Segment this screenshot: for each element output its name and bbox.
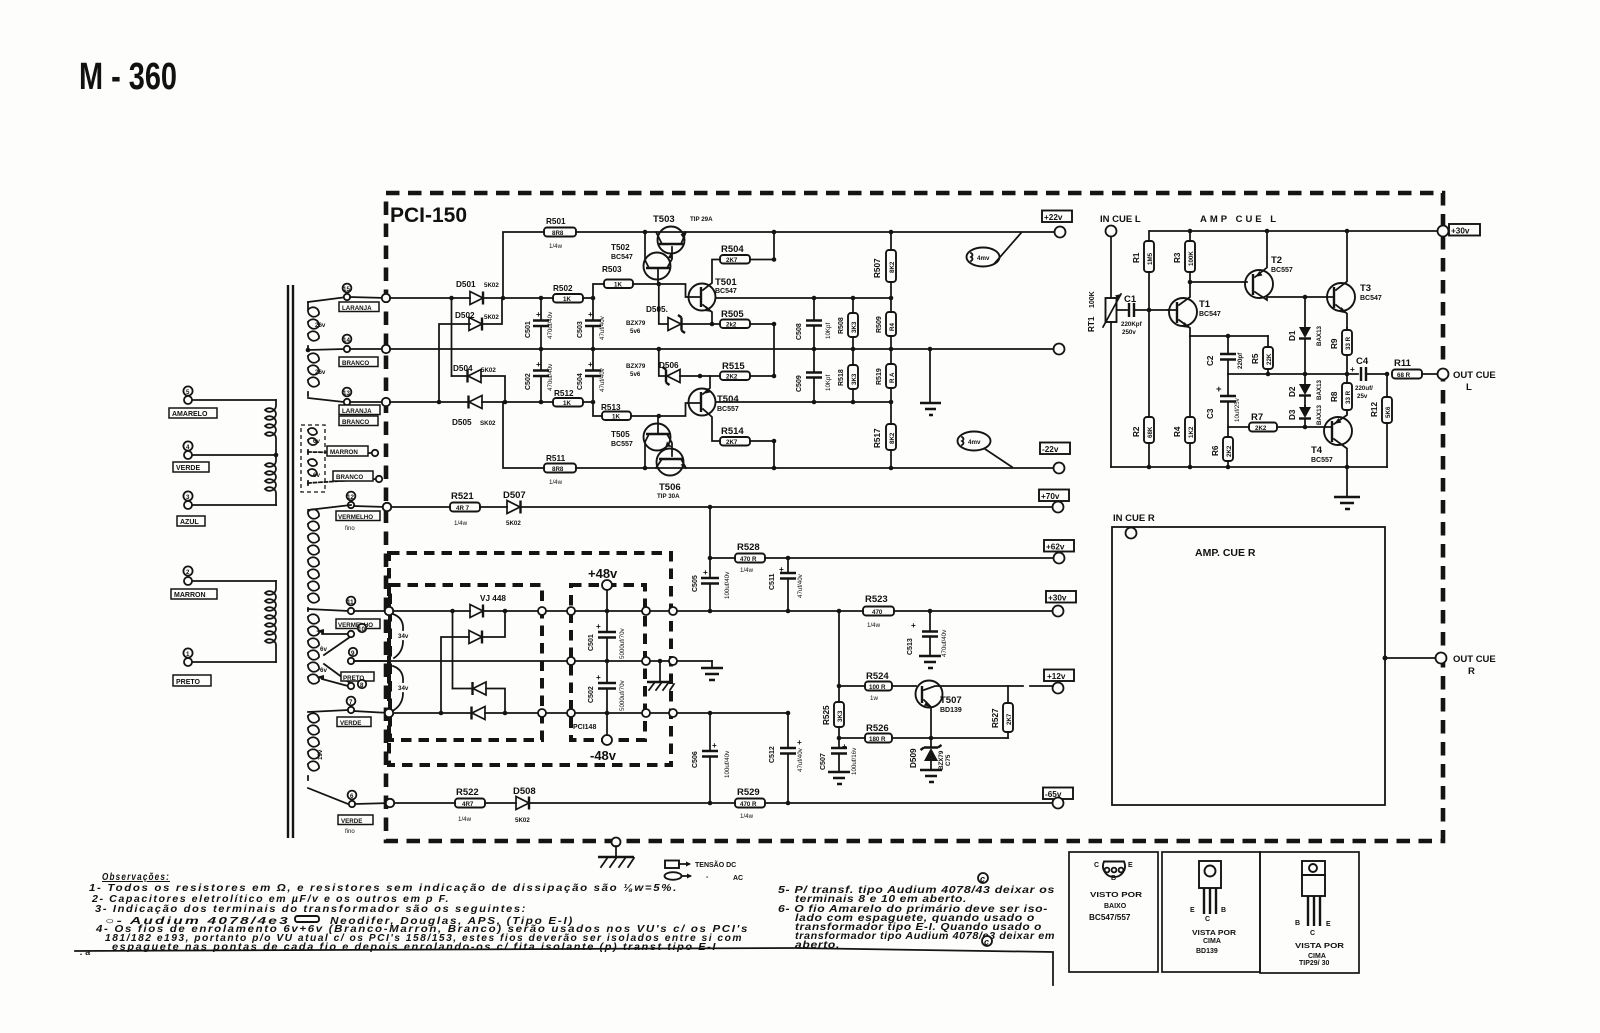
svg-text:10uf/25v: 10uf/25v: [1234, 397, 1241, 422]
svg-text:2K7: 2K7: [1006, 713, 1013, 725]
svg-text:espaguete nas pontas de cada f: espaguete nas pontas de cada fio e depoi…: [112, 942, 717, 953]
svg-text:R511: R511: [546, 454, 566, 463]
svg-text:PCI-150: PCI-150: [390, 204, 467, 227]
svg-text:B: B: [1295, 920, 1300, 927]
svg-text:+: +: [1216, 384, 1222, 395]
svg-text:+62v: +62v: [1046, 543, 1065, 552]
svg-text:OUT CUE: OUT CUE: [1453, 654, 1496, 665]
resistor R525: [822, 611, 844, 738]
svg-text:R521: R521: [451, 491, 474, 502]
unused winding dashed box with MARRON/BRANCO taps: [301, 425, 382, 492]
svg-text:1/4w: 1/4w: [458, 816, 472, 823]
svg-text:C4: C4: [1356, 356, 1369, 367]
svg-text:1/4w: 1/4w: [867, 622, 881, 629]
34v brace lower: [393, 666, 409, 710]
svg-text:5v6: 5v6: [630, 371, 641, 378]
-raw rail (t7): [392, 709, 790, 717]
svg-text:10Kpf: 10Kpf: [825, 323, 832, 339]
svg-text:D1: D1: [1288, 330, 1297, 341]
svg-text:PCI148: PCI148: [573, 724, 596, 731]
resistor R508: [838, 298, 858, 349]
svg-text:4R 7: 4R 7: [456, 505, 470, 512]
svg-text:M - 360: M - 360: [79, 56, 177, 98]
svg-text:CIMA: CIMA: [1308, 953, 1326, 960]
svg-text:R512: R512: [554, 389, 574, 398]
resistor R8: [1330, 374, 1352, 413]
svg-text:R5: R5: [1251, 353, 1260, 364]
svg-text:D3: D3: [1288, 409, 1297, 420]
svg-text:R2: R2: [1132, 426, 1141, 437]
svg-text:47uf/40v: 47uf/40v: [797, 747, 804, 772]
zener D506 (BZX79 5v6): [626, 349, 700, 385]
svg-text:+: +: [911, 621, 916, 630]
svg-text:+: +: [703, 568, 708, 577]
svg-text:1K: 1K: [563, 400, 571, 407]
svg-text:R4: R4: [889, 323, 896, 331]
svg-text:25v: 25v: [1357, 393, 1368, 400]
capacitor C509: [796, 349, 832, 402]
OUT CUE R terminal: [1383, 653, 1496, 678]
svg-text:250v: 250v: [1122, 329, 1136, 336]
svg-text:+30v: +30v: [1048, 594, 1067, 603]
OUT CUE L terminal: [1438, 369, 1496, 394]
diode D2 BAX13: [1288, 374, 1311, 406]
terminal 3 AZUL: [177, 491, 205, 526]
notes underline: [75, 948, 1053, 985]
svg-text:R525: R525: [822, 705, 831, 725]
svg-text:+12v: +12v: [1047, 672, 1066, 681]
svg-text:R7: R7: [1251, 412, 1263, 423]
svg-text:19v: 19v: [317, 749, 324, 760]
svg-text:AMARELO: AMARELO: [172, 411, 208, 418]
svg-text:220uf/: 220uf/: [1355, 385, 1373, 392]
6v+6v winding with taps 10/9/8 PRETO: [308, 614, 389, 689]
svg-text:R513: R513: [601, 403, 621, 412]
34v brace upper: [393, 614, 409, 658]
capacitor C504: [577, 349, 606, 402]
svg-text:220pf: 220pf: [1237, 352, 1244, 369]
secondary winding big (t12-t11): [308, 505, 351, 611]
svg-text:C512: C512: [769, 746, 776, 763]
svg-text:D508: D508: [513, 786, 536, 797]
svg-text:C513: C513: [907, 638, 914, 655]
svg-text:470 R: 470 R: [740, 801, 757, 808]
terminal 15 LARANJA: [339, 284, 386, 312]
svg-text:BC547: BC547: [715, 288, 737, 295]
svg-text:+70v: +70v: [1041, 492, 1060, 501]
svg-text:IN CUE R: IN CUE R: [1113, 513, 1155, 524]
-65v output: [1043, 788, 1073, 809]
svg-text:BC547: BC547: [1360, 295, 1382, 302]
svg-text:R507: R507: [873, 258, 882, 278]
primary winding lower (terminals 2-1): [191, 581, 276, 662]
transistor T502: [611, 232, 673, 284]
pinout box TIP29/30: [1260, 852, 1359, 973]
svg-text:IN CUE L: IN CUE L: [1100, 214, 1141, 225]
svg-text:T505: T505: [611, 430, 630, 439]
amp bottom rail: [1111, 465, 1387, 470]
potentiometer RT1 100K: [1087, 291, 1121, 467]
svg-text:PRETO: PRETO: [176, 679, 201, 686]
svg-text:+22v: +22v: [1044, 213, 1063, 222]
svg-text:1K: 1K: [614, 282, 622, 289]
svg-text:10Kpf: 10Kpf: [825, 375, 832, 391]
svg-text:+48v: +48v: [588, 566, 618, 581]
svg-text:2K2: 2K2: [1226, 445, 1233, 457]
primary winding upper (terminals 5-4-3): [191, 400, 278, 505]
svg-text:470uf/40v: 470uf/40v: [941, 629, 948, 657]
resistor R527: [991, 686, 1013, 738]
svg-text:C509: C509: [796, 375, 803, 392]
svg-text:BZX79: BZX79: [626, 320, 646, 327]
resistor R501 in +22 rail: [503, 217, 1055, 298]
bridge VJ448: [441, 594, 506, 720]
svg-text:T503: T503: [653, 214, 675, 225]
resistor R504: [720, 232, 776, 264]
svg-text:R1: R1: [1132, 252, 1141, 263]
svg-text:OUT CUE: OUT CUE: [1453, 370, 1496, 381]
svg-text:R528: R528: [737, 542, 760, 553]
svg-text:L: L: [1466, 382, 1472, 393]
svg-text:+: +: [596, 622, 601, 631]
svg-text:1M5: 1M5: [1147, 252, 1154, 265]
svg-text:VERDE: VERDE: [176, 465, 200, 472]
svg-text:T1: T1: [1199, 299, 1211, 310]
svg-text:T506: T506: [659, 482, 681, 493]
+48v terminal: [588, 566, 618, 611]
ground (bottom border): [598, 838, 634, 868]
terminal 1 PRETO: [173, 648, 211, 686]
svg-text:VERDE: VERDE: [340, 720, 361, 727]
svg-text:c: c: [984, 937, 989, 947]
svg-text:1K: 1K: [612, 414, 620, 421]
border pass-through circles on PCI-150 left edge: [382, 294, 394, 807]
svg-text:C501: C501: [525, 321, 532, 338]
svg-text:T504: T504: [717, 394, 739, 405]
diode D1 BAX13: [1288, 295, 1323, 374]
svg-text:LARANJA: LARANJA: [342, 408, 372, 415]
svg-text:R11: R11: [1394, 358, 1412, 369]
pinout box BC547/557: [1069, 852, 1158, 972]
svg-text:1/4w: 1/4w: [740, 567, 754, 574]
svg-text:SK02: SK02: [480, 420, 496, 427]
svg-text:2K7: 2K7: [726, 439, 738, 446]
svg-text:R519: R519: [876, 368, 883, 385]
svg-text:+: +: [842, 742, 847, 751]
svg-text:C501: C501: [588, 634, 595, 651]
svg-text:C503: C503: [577, 321, 584, 338]
svg-text:VERDE: VERDE: [341, 818, 362, 825]
svg-text:180 R: 180 R: [869, 736, 886, 743]
svg-text:BD139: BD139: [1196, 948, 1218, 955]
svg-text:1/4w: 1/4w: [740, 813, 754, 820]
svg-text:R527: R527: [991, 708, 1000, 728]
svg-text:R A: R A: [889, 372, 896, 383]
resistor R2: [1132, 310, 1154, 467]
diode D507: [503, 490, 526, 527]
svg-text:BRANCO: BRANCO: [336, 474, 363, 481]
svg-text:13: 13: [343, 390, 350, 397]
svg-text:AZUL: AZUL: [180, 519, 199, 526]
+30v output (amp): [1438, 224, 1481, 237]
svg-text:26v: 26v: [315, 369, 326, 376]
terminal 2 MARRON: [171, 566, 217, 599]
svg-text:C: C: [1310, 930, 1315, 937]
resistor R12: [1370, 374, 1392, 467]
svg-text:D2: D2: [1288, 386, 1297, 397]
-65v rail with R522 D508 R529: [394, 801, 1053, 806]
svg-text:100 R: 100 R: [869, 684, 886, 691]
svg-text:34v: 34v: [398, 685, 409, 692]
svg-text:-22v: -22v: [1042, 445, 1059, 454]
svg-text:2k2: 2k2: [726, 322, 737, 329]
capacitor C503: [577, 298, 606, 349]
svg-text:R505: R505: [721, 309, 744, 320]
svg-text:E: E: [1326, 921, 1331, 928]
svg-text:R501: R501: [546, 217, 566, 226]
svg-text:VISTO POR: VISTO POR: [1090, 892, 1142, 899]
resistor R511 in -22 rail: [503, 402, 1055, 486]
bridge dashed box: [390, 585, 542, 740]
capacitor C2: [1206, 336, 1244, 374]
svg-text:R6: R6: [1211, 445, 1220, 456]
+12v output: [1008, 670, 1074, 694]
svg-text:100K: 100K: [1188, 251, 1195, 266]
svg-text:BAX13: BAX13: [1316, 379, 1323, 400]
resistor R505: [710, 309, 777, 376]
resistor R4: [1173, 336, 1195, 467]
resistor R523 (+30): [863, 594, 894, 629]
capacitor C507: [820, 738, 858, 784]
svg-text:C3: C3: [1206, 408, 1215, 419]
resistor R519: [876, 349, 896, 402]
diode D502: [439, 298, 502, 402]
capacitor C502 (5000uf/70v): [588, 661, 626, 713]
svg-text:6v: 6v: [320, 646, 327, 653]
svg-text:34v: 34v: [398, 633, 409, 640]
svg-text:1K2: 1K2: [1188, 426, 1195, 438]
svg-text:D504: D504: [453, 364, 473, 373]
svg-text:C: C: [1205, 916, 1210, 923]
capacitor C1: [1117, 294, 1168, 336]
svg-text:47uf/40v: 47uf/40v: [599, 367, 606, 392]
rail t13 -raw with diode D505: [390, 396, 595, 428]
svg-text:RT1: RT1: [1087, 316, 1096, 332]
svg-text:2K2: 2K2: [726, 374, 738, 381]
svg-text:5K02: 5K02: [484, 282, 499, 289]
svg-text:R9: R9: [1330, 338, 1339, 349]
svg-text:R529: R529: [737, 787, 760, 798]
resistor R502: [553, 284, 583, 303]
svg-text:BD139: BD139: [940, 707, 962, 714]
svg-text:2K2: 2K2: [1255, 425, 1267, 432]
svg-text:B: B: [1221, 907, 1226, 914]
svg-text:1: 1: [186, 651, 190, 658]
svg-text:1K: 1K: [563, 296, 571, 303]
resistor R3: [1173, 231, 1195, 284]
svg-text:R504: R504: [721, 244, 744, 255]
svg-text:+: +: [588, 310, 593, 319]
+70v rail with R521 and D507: [391, 505, 1053, 510]
svg-text:D505.: D505.: [646, 305, 668, 314]
transistor T1: [1168, 282, 1221, 336]
transistor T505: [611, 416, 672, 468]
resistor R522: [455, 787, 485, 823]
svg-text:R518: R518: [838, 369, 845, 386]
svg-text:8: 8: [360, 682, 364, 689]
svg-text:R502: R502: [553, 284, 573, 293]
svg-text:33 R: 33 R: [1345, 390, 1352, 404]
svg-text:BC557: BC557: [1311, 457, 1333, 464]
svg-text:AMP. CUE R: AMP. CUE R: [1195, 547, 1256, 559]
transformer core: [288, 285, 293, 838]
svg-text:D501: D501: [456, 280, 476, 289]
legend TENSAO DC: [665, 860, 736, 869]
transistor T504: [688, 376, 739, 441]
capacitor C512: [769, 713, 804, 803]
svg-text:AMP CUE L: AMP CUE L: [1200, 214, 1279, 225]
svg-text:D507: D507: [503, 490, 526, 501]
terminal 5 AMARELO: [169, 386, 217, 418]
svg-text:R526: R526: [866, 723, 889, 734]
svg-text:C1: C1: [1124, 294, 1137, 305]
capacitor C501: [525, 298, 554, 349]
svg-text:R524: R524: [866, 671, 889, 682]
svg-text:T2: T2: [1271, 255, 1282, 266]
svg-text:8R8: 8R8: [552, 230, 564, 237]
+30v rail (amp): [1150, 229, 1437, 234]
svg-text:C511: C511: [769, 574, 776, 590]
svg-text:C506: C506: [692, 751, 699, 768]
svg-text:BAX13: BAX13: [1316, 404, 1323, 425]
svg-text:+: +: [536, 310, 541, 319]
transistor T503: [653, 214, 713, 254]
svg-text:BAIXO: BAIXO: [1104, 903, 1127, 910]
svg-text:5K02: 5K02: [515, 817, 530, 824]
resistor R528 (+62 feed): [708, 507, 1053, 611]
svg-text:R4: R4: [1173, 426, 1182, 437]
+62v output: [1044, 540, 1074, 564]
svg-text:R: R: [1468, 666, 1475, 677]
svg-text:+: +: [779, 565, 784, 574]
svg-text:R12: R12: [1370, 402, 1379, 417]
svg-text:8R8: 8R8: [552, 466, 564, 473]
svg-text:15: 15: [343, 286, 350, 293]
capacitor C4: [1350, 356, 1387, 400]
svg-text:2K7: 2K7: [726, 257, 738, 264]
svg-text:CIMA: CIMA: [1203, 938, 1221, 945]
capacitor C505: [692, 568, 731, 599]
terminal 12 VERMELHO fino: [336, 492, 387, 532]
svg-text:Observações:: Observações:: [102, 872, 170, 883]
svg-text:BC547: BC547: [611, 254, 633, 261]
svg-text:47uf/40v: 47uf/40v: [797, 573, 804, 598]
terminal 7 VERDE: [337, 697, 389, 727]
svg-text:fino: fino: [345, 526, 355, 532]
+30 raw rail (t11): [392, 607, 1053, 615]
svg-text:T507: T507: [940, 695, 962, 706]
svg-text:VISTA POR: VISTA POR: [1192, 930, 1236, 937]
svg-text:R503: R503: [602, 265, 622, 274]
PCI-150 main dashed border: [386, 193, 1443, 841]
svg-text:D509: D509: [909, 748, 918, 768]
svg-text:100uf/40v: 100uf/40v: [724, 750, 731, 778]
svg-text:5K02: 5K02: [506, 520, 521, 527]
svg-text:R8: R8: [1330, 391, 1339, 402]
svg-text:3K3: 3K3: [851, 321, 858, 333]
diode D508: [513, 786, 536, 824]
svg-text:VERMELHO: VERMELHO: [338, 514, 373, 521]
observations notes (left): [80, 872, 749, 957]
resistor R526: [837, 723, 1008, 743]
4mv bubble (+22): [967, 233, 1022, 267]
svg-text:1/4w: 1/4w: [549, 479, 563, 486]
svg-text:R523: R523: [865, 594, 888, 605]
resistor R515: [698, 361, 777, 381]
svg-text:5K6: 5K6: [1385, 406, 1392, 418]
svg-text:C2: C2: [1206, 355, 1215, 366]
rail t15 +raw: [390, 296, 595, 301]
resistor R503: [593, 265, 688, 298]
svg-text:3- Indicação dos terminais do: 3- Indicação dos terminais do transforma…: [95, 904, 527, 915]
svg-text:5000uf/70v: 5000uf/70v: [619, 679, 626, 711]
svg-text:T501: T501: [715, 277, 737, 288]
diode D504: [452, 364, 506, 402]
svg-text:470uf/40v: 470uf/40v: [547, 311, 554, 339]
svg-text:TIP29/ 30: TIP29/ 30: [1299, 960, 1329, 967]
svg-text:R509: R509: [876, 316, 883, 333]
terminal 11 VERMELHO: [336, 597, 389, 629]
svg-text:C502: C502: [525, 373, 532, 390]
terminal 6 VERDE fino: [338, 791, 390, 835]
svg-text:BC547: BC547: [1199, 311, 1221, 318]
pinout box BD139: [1162, 852, 1260, 972]
transistor T507: [916, 681, 1009, 739]
resistor R9: [1330, 328, 1352, 374]
terminal 14 BRANCO: [339, 335, 386, 367]
svg-text:BC547/557: BC547/557: [1089, 913, 1131, 922]
svg-text:3K3: 3K3: [851, 373, 858, 385]
svg-text:R508: R508: [838, 317, 845, 334]
resistor R7: [1228, 412, 1332, 432]
capacitor C3: [1206, 374, 1241, 427]
svg-text:BC557: BC557: [1271, 267, 1293, 274]
svg-text:470: 470: [872, 609, 883, 616]
ground (hatched, mid rail): [647, 661, 674, 690]
diode D3 BAX13: [1288, 379, 1323, 427]
4mv bubble (-22): [958, 432, 1013, 468]
svg-text:fino: fino: [345, 829, 355, 835]
transistor T4: [1311, 413, 1352, 467]
svg-text:8K2: 8K2: [889, 432, 896, 444]
svg-text:C75: C75: [945, 754, 952, 766]
svg-text:BC557: BC557: [611, 441, 633, 448]
svg-text:1- Todos os resistores em Ω, e: 1- Todos os resistores em Ω, e resistore…: [89, 883, 678, 894]
svg-text:C: C: [1094, 862, 1099, 869]
diode D501: [456, 280, 499, 305]
svg-text:5K02: 5K02: [484, 314, 499, 321]
mid ground rail: [354, 657, 712, 665]
resistor R507: [873, 232, 896, 298]
zener D509 (BZX79 C75): [909, 738, 952, 782]
svg-text:220Kpf: 220Kpf: [1121, 321, 1143, 328]
-22v output: [1040, 443, 1070, 474]
mid row to C4: [1228, 372, 1358, 377]
svg-text:8K2: 8K2: [889, 261, 896, 273]
svg-text:6: 6: [350, 793, 354, 800]
legend AC: [665, 872, 744, 882]
mid rail 0V: [390, 344, 1065, 355]
